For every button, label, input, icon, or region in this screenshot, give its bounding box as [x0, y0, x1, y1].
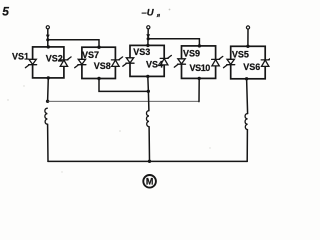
svg-text:VS8: VS8	[94, 61, 111, 71]
node box2 top	[97, 46, 100, 49]
thyristor VS8	[111, 57, 122, 67]
node box1 bottom	[47, 76, 50, 79]
arrowhead on stem 2	[146, 34, 150, 38]
arrowhead on stem 1	[46, 35, 50, 39]
svg-text:VS6: VS6	[243, 62, 260, 72]
winding L1 (motor phase winding)	[45, 108, 47, 124]
svg-text:VS10: VS10	[190, 63, 211, 73]
wire box4 bottom down to cross-connect	[198, 78, 200, 101]
wire branch terminal1 to box2 top	[48, 40, 99, 47]
speck noise	[119, 130, 121, 132]
wire box3 bottom down through junction	[148, 76, 149, 110]
node junction bus/leg2	[148, 160, 151, 163]
wire box1 bottom down	[47, 78, 50, 101]
node box5 top	[246, 45, 249, 48]
winding L3 (motor phase winding)	[245, 114, 247, 130]
node box5 bottom	[245, 77, 248, 80]
thyristor VS10	[212, 56, 223, 66]
node box4 bottom	[198, 77, 201, 80]
thyristor VS5	[224, 59, 235, 67]
motor M	[143, 175, 156, 188]
box VS3/VS4 outline	[130, 45, 164, 76]
node junction stem1/branch	[46, 38, 49, 41]
svg-text:VS9: VS9	[183, 49, 200, 59]
wire thin cross-connect box1 bottom to box4 bottom	[48, 100, 199, 102]
svg-text:–U: –U	[142, 7, 155, 18]
node box4 top	[198, 44, 201, 47]
node box3 bottom	[146, 75, 149, 78]
svg-text:M: M	[146, 177, 154, 187]
svg-text:VS2: VS2	[46, 53, 63, 63]
node box1 top	[47, 45, 50, 48]
wire L3 to bus	[246, 130, 248, 162]
box VS1/VS2 outline	[33, 47, 64, 78]
svg-text:VS1: VS1	[12, 51, 29, 61]
terminal 3 (phase input)	[246, 26, 249, 29]
terminal 1 (phase input)	[46, 26, 49, 29]
node box3 top	[146, 44, 149, 47]
thyristor VS9	[174, 59, 185, 67]
winding L2 (motor phase winding)	[146, 111, 148, 127]
thyristor VS7	[75, 59, 86, 67]
svg-text:VS7: VS7	[82, 50, 99, 60]
node junction stem2/branch	[147, 37, 150, 40]
wire bottom bus	[48, 160, 247, 162]
box VS5/VS6 outline	[231, 46, 266, 79]
thyristor VS4	[160, 55, 171, 65]
thyristor VS1	[25, 59, 36, 67]
thyristor VS3	[123, 58, 134, 66]
wire stem terminal3 to box5 top	[247, 29, 249, 46]
wire branch terminal2 to box4 top	[148, 39, 199, 46]
wire box5 bottom down	[247, 79, 248, 114]
node box2 bottom	[97, 77, 100, 80]
thyristor VS6	[261, 59, 270, 67]
svg-text:VS5: VS5	[232, 49, 249, 59]
wire L2 to bus	[148, 127, 150, 162]
wire L1 to bus	[47, 124, 49, 161]
wire stem terminal1 to box1 top	[47, 29, 49, 47]
wire box2 bottom down	[99, 79, 148, 92]
node junction leg1	[46, 100, 49, 103]
svg-text:VS4: VS4	[146, 60, 163, 70]
node junction leg2	[147, 90, 150, 93]
thyristor VS2	[60, 57, 71, 67]
box VS7/VS8 outline	[82, 47, 116, 78]
terminal 2 (phase input, -U)	[147, 26, 150, 29]
svg-text:5: 5	[2, 5, 9, 19]
box VS9/VS10 outline	[182, 46, 216, 79]
wire stem terminal2 to box3 top	[147, 29, 149, 45]
svg-text:я: я	[156, 13, 161, 19]
svg-text:VS3: VS3	[133, 47, 150, 57]
